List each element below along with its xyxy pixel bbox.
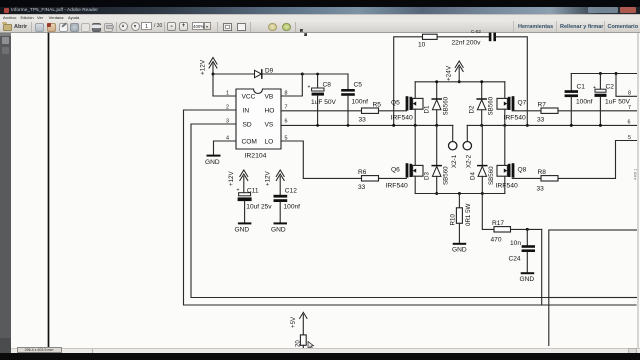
svg-text:D2: D2 bbox=[469, 105, 476, 113]
svg-text:R17: R17 bbox=[492, 220, 504, 227]
transistor Q7 IRF540 bbox=[497, 82, 527, 127]
svg-text:R7: R7 bbox=[538, 102, 547, 109]
capacitor C12 100nf with +12V bbox=[265, 170, 301, 223]
toolbar icons bbox=[35, 23, 44, 32]
pin micro text right edge bbox=[634, 169, 638, 180]
svg-text:C11: C11 bbox=[247, 188, 259, 195]
capacitor C5 bbox=[341, 74, 368, 127]
svg-text:VCC: VCC bbox=[242, 94, 256, 101]
mouse cursor bbox=[308, 342, 314, 350]
svg-text:100nf: 100nf bbox=[284, 204, 301, 211]
svg-text:R8: R8 bbox=[538, 169, 547, 176]
pin 1 VCC wire bbox=[213, 91, 236, 97]
menu bar bbox=[0, 14, 640, 22]
svg-text:D1: D1 bbox=[424, 105, 431, 113]
svg-text:GND: GND bbox=[205, 159, 220, 166]
ground GND (C12) bbox=[271, 223, 286, 233]
wire top rail right block bbox=[571, 73, 638, 75]
svg-text:+12V: +12V bbox=[228, 171, 235, 186]
page left border bbox=[48, 34, 50, 348]
svg-text:C-52: C-52 bbox=[471, 29, 481, 34]
svg-text:C24: C24 bbox=[509, 256, 521, 263]
svg-text:D3: D3 bbox=[424, 172, 431, 180]
capacitor C1 bbox=[565, 74, 593, 127]
svg-text:VB: VB bbox=[265, 94, 274, 101]
svg-text:2: 2 bbox=[226, 105, 229, 111]
svg-text:3: 3 bbox=[226, 119, 229, 125]
svg-text:SB560: SB560 bbox=[487, 96, 494, 115]
svg-text:20: 20 bbox=[295, 340, 301, 347]
svg-text:LO: LO bbox=[265, 139, 274, 146]
svg-text:R5: R5 bbox=[373, 102, 382, 109]
svg-text:1uF 50V: 1uF 50V bbox=[605, 99, 631, 106]
left sidebar bbox=[0, 33, 11, 353]
wire +12V to D9 bbox=[213, 73, 255, 75]
svg-text:SB560: SB560 bbox=[488, 166, 495, 185]
snubber corner wire left bbox=[392, 37, 422, 127]
ground GND (C11) bbox=[235, 223, 251, 233]
svg-text:R6: R6 bbox=[358, 169, 367, 176]
toolbar bbox=[0, 20, 640, 33]
transistor Q6 IRF540 bbox=[386, 125, 424, 193]
resistor R17 bbox=[491, 220, 511, 244]
capacitor C52 22nf 200v bbox=[452, 29, 497, 47]
svg-text:Q7: Q7 bbox=[518, 100, 527, 107]
svg-text:R10: R10 bbox=[450, 214, 457, 226]
wire source rail (bottom of bridge) bbox=[415, 193, 505, 195]
svg-text:C1: C1 bbox=[577, 84, 586, 91]
svg-text:33: 33 bbox=[359, 117, 367, 124]
svg-text:C2: C2 bbox=[606, 84, 615, 91]
pin 2 IN wire bbox=[184, 105, 237, 111]
svg-text:IRF540: IRF540 bbox=[504, 115, 527, 122]
svg-text:7: 7 bbox=[628, 105, 631, 111]
+24V power symbol bbox=[446, 61, 464, 83]
svg-text:Q5: Q5 bbox=[391, 100, 400, 107]
svg-text:GND: GND bbox=[235, 227, 250, 234]
node block rectangle right bbox=[549, 230, 638, 298]
ground GND (C24) bbox=[520, 273, 535, 283]
svg-text:IRF540: IRF540 bbox=[386, 183, 409, 190]
window buttons bbox=[588, 7, 618, 13]
svg-text:X2-1: X2-1 bbox=[451, 154, 458, 168]
pin 3 SD wire bbox=[191, 119, 236, 125]
svg-text:GND: GND bbox=[271, 227, 286, 234]
svg-text:33: 33 bbox=[537, 186, 545, 193]
diode D3 SB560 bbox=[424, 125, 450, 195]
resistor R6 bbox=[358, 169, 406, 191]
wire snubber mid bbox=[437, 36, 489, 38]
svg-text:COM: COM bbox=[242, 139, 257, 146]
pin 4 COM wire bbox=[214, 136, 237, 156]
svg-text:0R1 5W: 0R1 5W bbox=[465, 203, 472, 226]
svg-text:+: + bbox=[308, 85, 311, 91]
terminal X2-2 bbox=[463, 125, 473, 168]
svg-text:+24V: +24V bbox=[446, 65, 453, 81]
svg-text:10n: 10n bbox=[510, 240, 521, 247]
svg-text:D4: D4 bbox=[469, 172, 476, 180]
svg-text:IN: IN bbox=[243, 108, 250, 115]
resistor R20 bbox=[295, 335, 306, 348]
bottom black bar bbox=[0, 353, 640, 360]
terminal X2-1 bbox=[449, 125, 459, 168]
svg-text:IRF540: IRF540 bbox=[391, 115, 414, 122]
svg-text:VS: VS bbox=[265, 122, 274, 129]
wire IN feedback loop bbox=[184, 110, 637, 305]
svg-text:8: 8 bbox=[285, 91, 288, 97]
capacitor C8 bbox=[308, 73, 337, 127]
pin 5 LO wire bbox=[281, 136, 362, 179]
capacitor C2 bbox=[593, 72, 631, 127]
wire +24V rail bbox=[415, 81, 505, 83]
ground GND (IR2104 COM) bbox=[205, 156, 220, 166]
svg-text:+12V: +12V bbox=[265, 171, 272, 186]
diode D1 SB560 bbox=[424, 80, 450, 127]
wire VS rail right segment bbox=[467, 120, 637, 126]
svg-text:6: 6 bbox=[628, 120, 631, 126]
svg-text:33: 33 bbox=[358, 184, 366, 191]
title bar bbox=[0, 0, 640, 7]
svg-text:22nf 200v: 22nf 200v bbox=[452, 40, 482, 47]
wire R8 to pin 5 bbox=[558, 135, 637, 178]
snubber corner wire right bbox=[496, 37, 529, 127]
node +12V/D9 junction bbox=[212, 73, 215, 76]
title text bbox=[11, 7, 211, 14]
transistor Q5 IRF540 bbox=[391, 82, 424, 127]
bottom scrollbar band bbox=[11, 348, 640, 354]
svg-text:GND: GND bbox=[520, 276, 535, 283]
diode D9 bbox=[255, 68, 274, 79]
right toolbar buttons bbox=[513, 21, 514, 32]
svg-text:8: 8 bbox=[628, 91, 631, 97]
wire R17 to corner bbox=[511, 228, 542, 305]
transistor Q8 IRF540 bbox=[496, 125, 527, 193]
svg-text:C8: C8 bbox=[323, 82, 332, 89]
svg-text:+5V: +5V bbox=[290, 316, 297, 328]
resistor R7 bbox=[512, 102, 637, 124]
svg-text:1uF 50V: 1uF 50V bbox=[311, 99, 337, 106]
svg-text:10uf 25v: 10uf 25v bbox=[246, 204, 272, 211]
node VB junction bbox=[301, 73, 304, 76]
page size tooltip bbox=[17, 347, 62, 353]
diode D2 SB560 bbox=[469, 80, 495, 127]
wire VB riser pin 8 bbox=[281, 74, 302, 96]
wire block left edge extension bbox=[548, 298, 550, 346]
svg-text:IRF540: IRF540 bbox=[496, 183, 519, 190]
svg-text:Q8: Q8 bbox=[518, 167, 527, 174]
svg-text:1: 1 bbox=[226, 91, 229, 97]
svg-text:C5: C5 bbox=[354, 82, 363, 89]
wire VB right pin 8 bbox=[615, 72, 638, 97]
pin 8 number bbox=[285, 91, 288, 97]
diode D4 SB560 bbox=[469, 125, 495, 195]
resistor R10 0R1 5W bbox=[450, 192, 472, 243]
svg-text:5: 5 bbox=[285, 136, 288, 142]
svg-text:SB560: SB560 bbox=[442, 166, 449, 185]
svg-text:GND: GND bbox=[452, 247, 467, 254]
svg-text:7: 7 bbox=[285, 105, 288, 111]
svg-text:+12V: +12V bbox=[200, 59, 207, 75]
+12V power symbol (left) bbox=[200, 58, 218, 97]
resistor R8 bbox=[512, 169, 558, 193]
svg-text:6: 6 bbox=[285, 119, 288, 125]
svg-text:470: 470 bbox=[491, 237, 502, 244]
wire branch to R17 bbox=[482, 194, 494, 230]
page nav bbox=[119, 22, 128, 31]
capacitor C24 10n bbox=[509, 229, 536, 272]
svg-text:100nf: 100nf bbox=[352, 99, 369, 106]
app icon bbox=[4, 8, 9, 13]
svg-text:10: 10 bbox=[418, 42, 426, 49]
ground GND (R10) bbox=[452, 244, 467, 254]
resistor 10 (snubber) bbox=[418, 34, 437, 48]
svg-text:SB560: SB560 bbox=[442, 96, 449, 115]
svg-text:5: 5 bbox=[628, 135, 631, 141]
svg-text:100nf: 100nf bbox=[576, 99, 593, 106]
svg-text:Q6: Q6 bbox=[391, 167, 400, 174]
pin 7 HO wire bbox=[281, 105, 362, 111]
svg-text:SD: SD bbox=[243, 122, 252, 129]
capacitor C11 10uf 25v with +12V bbox=[228, 170, 272, 223]
svg-text:4: 4 bbox=[226, 136, 229, 142]
wire SD feedback loop bbox=[191, 124, 638, 298]
svg-text:HO: HO bbox=[265, 108, 275, 115]
pin 6 VS wire bbox=[281, 119, 453, 126]
abrir button: folder icon bbox=[3, 24, 12, 31]
+5V power symbol bbox=[290, 312, 307, 335]
svg-text:33: 33 bbox=[537, 117, 545, 124]
op-amp U1 IR2104 body bbox=[236, 89, 281, 160]
fullscreen icon bbox=[300, 23, 307, 30]
right page edge bbox=[637, 33, 639, 348]
svg-text:IR2104: IR2104 bbox=[245, 153, 267, 160]
svg-text:C12: C12 bbox=[285, 188, 297, 195]
resistor R5 bbox=[359, 102, 407, 124]
wire D9 to VB node bbox=[263, 73, 349, 75]
svg-text:X2-2: X2-2 bbox=[466, 154, 473, 168]
